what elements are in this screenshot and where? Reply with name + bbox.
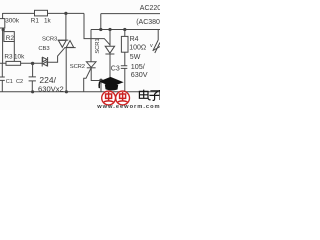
wire bottom rail	[0, 91, 160, 93]
svg-text:R2: R2	[6, 35, 15, 42]
wire SCR2 gate	[84, 69, 91, 92]
svg-text:R3: R3	[4, 53, 13, 60]
node C2 junction	[31, 62, 34, 65]
svg-text:R1: R1	[31, 17, 40, 24]
wire SCR3 cathode to bottom rail	[65, 48, 67, 92]
svg-text:1k: 1k	[44, 17, 52, 24]
svg-text:www.eeworm.com: www.eeworm.com	[96, 104, 160, 110]
svg-text:630V: 630V	[131, 70, 148, 79]
svg-text:SCR1: SCR1	[95, 38, 101, 53]
wire corner down to SCR1 gate	[84, 13, 110, 44]
svg-text:300k: 300k	[5, 18, 20, 25]
node bottom junctions	[31, 90, 34, 93]
node top junction	[64, 12, 67, 15]
watermark cap logo	[98, 77, 123, 91]
svg-text:v: v	[150, 43, 153, 49]
plug symbol right edge	[153, 30, 160, 54]
wire SCR3 anode vertical	[65, 13, 67, 40]
node rail junctions	[99, 28, 102, 31]
svg-text:C3: C3	[111, 66, 120, 73]
resistor R4 lead	[124, 30, 126, 37]
watermark stamp 2	[116, 91, 130, 105]
svg-text:C1: C1	[6, 79, 13, 85]
wire top-right horizontal	[101, 14, 160, 30]
resistor R4 box	[121, 36, 128, 52]
svg-text:SCR2: SCR2	[70, 64, 85, 70]
wire left vertical drop	[1, 13, 3, 92]
svg-text:10k: 10k	[14, 53, 25, 60]
wire mid rail	[91, 29, 160, 31]
watermark text dianzi xiazai	[139, 90, 160, 101]
svg-text:630Vx2: 630Vx2	[38, 84, 64, 93]
svg-text:(AC380V: (AC380V	[136, 19, 160, 26]
resistor 300k (vertical box, clipped at left edge)	[0, 19, 5, 28]
resistor R3 box	[6, 61, 21, 65]
svg-text:AC220V: AC220V	[140, 5, 160, 12]
diac CB3	[42, 57, 47, 67]
svg-text:R4: R4	[130, 36, 139, 43]
wire top-left horizontal	[3, 12, 84, 14]
resistor R2 box	[4, 32, 14, 42]
triac SCR3	[58, 40, 76, 48]
capacitor C3	[121, 52, 128, 92]
node junction to R2	[2, 28, 5, 31]
thyristor SCR2	[86, 62, 96, 68]
resistor R1 box	[35, 10, 48, 16]
node cathode junction	[99, 79, 102, 82]
svg-text:100Ω: 100Ω	[129, 45, 146, 52]
watermark stamp 1	[102, 91, 116, 105]
thyristor SCR1	[109, 30, 111, 47]
wire down to bottom rail	[100, 81, 102, 92]
svg-text:CB3: CB3	[38, 46, 50, 52]
wire R3 row	[0, 62, 42, 64]
wire SCR2 cathode	[91, 68, 110, 81]
capacitor C2	[29, 63, 36, 91]
svg-text:SCR3: SCR3	[42, 36, 58, 42]
wire R2 bottom lead	[13, 42, 15, 62]
svg-text:C2: C2	[16, 79, 23, 85]
svg-text:5W: 5W	[130, 54, 141, 61]
capacitor C1 (clipped at left edge)	[0, 77, 5, 80]
wire SCR2 anode vertical	[90, 30, 92, 62]
wire SCR3 gate	[48, 48, 65, 62]
